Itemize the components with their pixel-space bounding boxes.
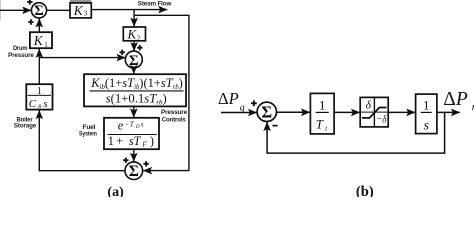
svg-text:Σ: Σ bbox=[129, 53, 139, 69]
wire: feedback from output to Sb bbox=[267, 112, 445, 153]
svg-text:1: 1 bbox=[319, 97, 326, 112]
svg-text:1: 1 bbox=[423, 98, 429, 112]
svg-text:ΔP: ΔP bbox=[218, 89, 239, 108]
wire: fuel system to summer S3 bbox=[133, 149, 135, 161]
block: rate limiter with delta limits bbox=[360, 97, 388, 127]
block: governor 1/Tt bbox=[310, 93, 334, 133]
svg-text:C: C bbox=[29, 98, 37, 110]
wire: S2 to pressure-controls block bbox=[133, 67, 135, 74]
wire: rate limiter to integrator bbox=[388, 111, 415, 113]
svg-text:−δ: −δ bbox=[376, 114, 387, 126]
svg-text:Pressure: Pressure bbox=[161, 109, 188, 116]
node: plus sign right of K2 drop bbox=[137, 45, 142, 50]
block K1 bbox=[30, 32, 52, 48]
svg-text:e: e bbox=[118, 118, 124, 132]
svg-text:Σ: Σ bbox=[34, 3, 43, 19]
svg-text:K: K bbox=[73, 3, 84, 18]
svg-text:Σ: Σ bbox=[129, 163, 139, 180]
svg-text:ΔP: ΔP bbox=[443, 89, 468, 110]
wire: input into summer Sb bbox=[221, 112, 257, 114]
wire: 1/Tt to rate limiter bbox=[334, 111, 360, 113]
crop artifact: faint left-edge line bbox=[0, 0, 2, 20]
block: pressure controls transfer function bbox=[84, 74, 186, 106]
svg-text:D: D bbox=[135, 125, 140, 130]
wire: drum pressure branch into S2 bbox=[39, 57, 125, 59]
wire: steam-flow feedback to summer S3 bbox=[134, 15, 189, 170]
summer S3 bbox=[125, 162, 143, 180]
svg-text:(b): (b) bbox=[356, 184, 374, 197]
node: plus sign right of S3 bbox=[143, 161, 148, 166]
block K2 bbox=[123, 27, 145, 41]
wire: K1 to summer S1 bbox=[38, 19, 40, 33]
svg-text:Controls: Controls bbox=[162, 117, 187, 124]
svg-text:1: 1 bbox=[108, 134, 114, 148]
svg-text:): ) bbox=[150, 134, 154, 148]
block: fuel system transfer function bbox=[104, 118, 159, 149]
node: minus sign at Sb feedback bbox=[272, 125, 277, 127]
svg-text:+: + bbox=[116, 134, 123, 148]
svg-text:System: System bbox=[79, 131, 97, 138]
node: plus sign above S1 input bbox=[27, 0, 32, 5]
svg-text:F: F bbox=[141, 141, 147, 149]
summer Sb bbox=[257, 102, 276, 121]
block K3 bbox=[70, 3, 91, 18]
svg-text:s: s bbox=[141, 120, 144, 128]
wire: integrator output bbox=[437, 111, 460, 113]
summer S1 bbox=[31, 3, 46, 18]
summer S2 bbox=[125, 51, 142, 68]
wire: Sb to 1/Tt bbox=[276, 111, 310, 113]
wire: junction drop to K2 bbox=[133, 10, 135, 27]
svg-text:sT: sT bbox=[129, 134, 142, 148]
wire: S1 to K3 bbox=[47, 9, 70, 11]
svg-text:3: 3 bbox=[84, 10, 88, 18]
wire: K3 to steam-flow arrow bbox=[91, 9, 167, 11]
svg-text:Σ: Σ bbox=[261, 103, 272, 122]
svg-text:K: K bbox=[33, 33, 44, 48]
svg-text:T: T bbox=[316, 117, 324, 132]
svg-text:Pressure: Pressure bbox=[8, 52, 34, 59]
block: integrator 1/s bbox=[416, 94, 437, 134]
node: plus sign below-left of S1 bbox=[28, 19, 33, 24]
svg-text:Storage: Storage bbox=[14, 123, 37, 130]
svg-text:Steam Flow: Steam Flow bbox=[138, 0, 172, 7]
node: plus sign left of S3 top input bbox=[123, 158, 128, 163]
svg-text:1: 1 bbox=[44, 41, 48, 49]
svg-text:2: 2 bbox=[137, 34, 141, 42]
svg-text:δ: δ bbox=[366, 100, 372, 112]
svg-text:−: − bbox=[125, 120, 129, 128]
svg-text:s: s bbox=[424, 117, 429, 132]
svg-text:(a): (a) bbox=[107, 185, 124, 197]
node: plus sign at Sb input bbox=[251, 100, 257, 106]
wire: input into summer S1 bbox=[0, 9, 31, 11]
wire: S3 output to boiler storage bbox=[39, 110, 125, 171]
block: boiler storage 1/CBs bbox=[26, 84, 52, 109]
wire: pressure controls to fuel system bbox=[133, 106, 135, 117]
wire: K2 to summer S2 bbox=[133, 41, 135, 51]
wire: boiler storage to K1 bbox=[38, 49, 40, 84]
node: plus sign left of S2 bbox=[120, 50, 125, 55]
crop artifact: grey band above K3 bbox=[70, 0, 91, 3]
svg-text:s: s bbox=[43, 98, 47, 110]
